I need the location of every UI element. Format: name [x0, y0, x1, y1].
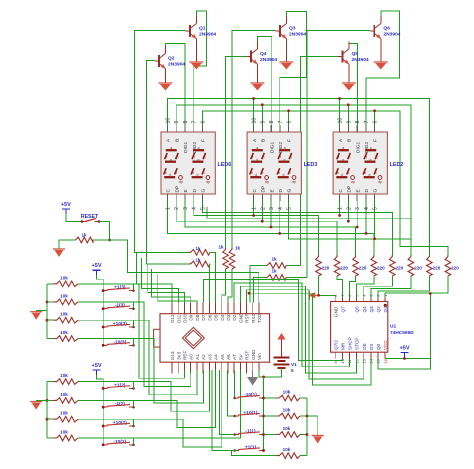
svg-text:c: c — [375, 171, 377, 175]
resistor R24 220 — [371, 255, 377, 276]
7-segment display LED2 — [333, 132, 387, 194]
svg-text:8: 8 — [183, 121, 189, 124]
wire button -10(3) stub — [133, 339, 135, 346]
resistor R26 220 — [408, 255, 414, 276]
resistor R-base2 1k — [189, 261, 210, 267]
resistor 10k bank1 row 3 — [264, 434, 277, 436]
svg-text:C: C — [338, 189, 344, 193]
svg-text:MR: MR — [340, 342, 345, 350]
digit 2 of LED3 — [278, 150, 291, 177]
wire pulldown column bank1 — [306, 398, 308, 456]
wire R-base3 to MCU D4 — [222, 269, 226, 303]
svg-text:d: d — [169, 173, 171, 177]
wire R 220-1 to U1 GND with port arrow — [319, 276, 336, 302]
wire MCU D8 to left column — [158, 274, 197, 303]
svg-text:GND: GND — [238, 312, 243, 323]
wire Q1 emitter — [195, 39, 197, 63]
resistor 10k bank1 row 2 — [264, 415, 277, 417]
svg-text:G: G — [287, 189, 293, 193]
digit 1 of LED6 — [164, 150, 177, 177]
svg-text:DP: DP — [174, 186, 180, 193]
wire MCU to U1 STCP — [240, 286, 356, 373]
svg-text:4: 4 — [364, 207, 370, 210]
wire U1 DS control — [249, 293, 371, 385]
svg-text:A5: A5 — [220, 354, 225, 360]
svg-text:5: 5 — [291, 368, 294, 373]
svg-text:DIG1: DIG1 — [355, 141, 361, 153]
svg-text:D13: D13 — [170, 351, 175, 360]
wire Q3 emitter — [285, 39, 287, 63]
svg-text:D10: D10 — [183, 314, 188, 323]
svg-text:D8: D8 — [195, 314, 200, 320]
wire R-base6 to MCU TXD — [254, 278, 267, 303]
wire bank2 row 4 to MCU — [78, 370, 240, 438]
svg-text:9: 9 — [260, 121, 266, 124]
svg-text:a: a — [256, 146, 258, 150]
svg-text:Q6: Q6 — [383, 26, 390, 32]
svg-text:GND: GND — [333, 306, 338, 317]
wire MCU D11 to left column — [142, 258, 179, 303]
svg-text:-10(2): -10(2) — [113, 439, 126, 445]
wire +5V riser right of U1 — [429, 294, 431, 359]
svg-text:F: F — [201, 139, 207, 142]
svg-text:1k: 1k — [195, 258, 201, 263]
wire Q6 base to R-base6 — [286, 31, 370, 278]
ground reset — [53, 248, 65, 250]
wire Q4 base to R-base3 — [226, 57, 247, 248]
svg-text:E: E — [269, 189, 275, 192]
svg-text:F: F — [287, 139, 293, 142]
svg-text:2N3904: 2N3904 — [383, 32, 400, 38]
svg-text:220: 220 — [396, 266, 404, 271]
wire R 220-6 to U1 Q2 — [371, 276, 411, 302]
svg-text:c: c — [203, 171, 205, 175]
svg-text:a: a — [170, 146, 172, 150]
wire +1(1) jog to resistor — [232, 451, 277, 456]
wire button -1(3) stub — [133, 302, 135, 309]
resistor 10k bank 2 row 4 — [47, 437, 53, 439]
pin 1 marker U1 — [384, 304, 387, 307]
svg-text:220: 220 — [433, 266, 441, 271]
ground Q4 — [250, 82, 264, 84]
svg-text:10: 10 — [252, 118, 258, 124]
svg-text:b: b — [204, 156, 206, 160]
svg-text:f: f — [366, 156, 367, 160]
svg-text:d: d — [341, 173, 343, 177]
wire bank3 row 2 to MCU — [78, 302, 191, 387]
wire segment G bus to R5 — [202, 201, 392, 255]
wire U1 VCC to +5V — [385, 358, 430, 360]
resistor 10k bank 3 row 1 — [47, 283, 53, 285]
wire segment C bus to R4 — [168, 201, 374, 255]
svg-text:STCP: STCP — [355, 338, 360, 350]
resistor 10k bank 2 row 3 — [47, 418, 53, 420]
digit 2 of LED6 — [192, 150, 205, 177]
svg-text:g: g — [370, 158, 372, 162]
svg-text:220: 220 — [322, 266, 330, 271]
wire button +1(1) left — [212, 370, 237, 451]
svg-text:-1(3): -1(3) — [115, 303, 126, 309]
microcontroller A1 Arduino Nano — [160, 314, 270, 363]
svg-text:G: G — [373, 189, 379, 193]
wire Q5 emitter — [348, 64, 350, 83]
svg-text:a: a — [284, 146, 286, 150]
svg-text:10: 10 — [338, 118, 344, 124]
wire segment E bus to R3 — [185, 201, 356, 255]
svg-text:1k: 1k — [271, 269, 277, 274]
svg-text:10k: 10k — [283, 408, 291, 413]
svg-text:c: c — [289, 171, 291, 175]
wire Q5 collector to LED2 DIG1 — [349, 44, 358, 133]
svg-text:dp: dp — [179, 180, 183, 184]
wire segment B bus — [176, 105, 411, 255]
svg-text:b: b — [263, 156, 265, 160]
svg-text:1: 1 — [338, 207, 344, 210]
svg-text:6: 6 — [373, 121, 379, 124]
svg-text:g: g — [170, 158, 172, 162]
resistor 10k bank 2 row 1 — [47, 381, 53, 383]
svg-text:3V3: 3V3 — [176, 351, 181, 360]
svg-text:3: 3 — [183, 207, 189, 210]
wire Q4 emitter — [256, 64, 258, 83]
svg-text:220: 220 — [377, 266, 385, 271]
svg-text:10k: 10k — [283, 390, 291, 395]
resistor 10k bank 3 row 3 — [47, 319, 53, 321]
svg-text:6: 6 — [287, 121, 293, 124]
svg-text:10k: 10k — [283, 447, 291, 452]
ground Q6 — [374, 61, 388, 63]
svg-text:A6: A6 — [226, 354, 231, 360]
wire Q6 collector to LED2 DIG2 — [366, 11, 399, 132]
svg-text:-1(1): -1(1) — [245, 429, 256, 435]
wire R-base2 to MCU D6 — [208, 264, 211, 303]
svg-text:D7: D7 — [201, 314, 206, 320]
svg-text:10k: 10k — [60, 293, 68, 298]
wire R 220-7 to U1 Q1 — [378, 276, 430, 302]
wire MCU to U1 SHCP — [234, 283, 349, 367]
wire Q3 base to R-base4 — [232, 31, 276, 248]
wire segment A bus — [168, 99, 430, 256]
svg-text:1k: 1k — [195, 246, 201, 251]
svg-text:g: g — [342, 158, 344, 162]
wire Q2 emitter — [164, 69, 166, 84]
wire Q1 collector to LED6 DIG2 — [194, 11, 207, 132]
svg-text:B: B — [347, 139, 353, 142]
wire R 220-8 to U1 Q1 — [385, 276, 448, 302]
svg-text:16: 16 — [383, 358, 388, 363]
svg-text:DS: DS — [369, 344, 374, 350]
svg-text:7: 7 — [364, 121, 370, 124]
svg-text:g: g — [284, 158, 286, 162]
ground flag MCU GND gray — [252, 370, 254, 377]
svg-text:10k: 10k — [60, 373, 68, 378]
svg-text:A4: A4 — [214, 354, 219, 360]
svg-text:Q2: Q2 — [168, 56, 175, 62]
svg-text:220: 220 — [340, 266, 348, 271]
ground bank 2 — [36, 399, 47, 401]
resistor R28 220 — [445, 255, 451, 276]
svg-text:C: C — [166, 189, 172, 193]
svg-text:2N3904: 2N3904 — [199, 32, 216, 38]
wire button +1(3) stub — [133, 284, 135, 291]
resistor R-reset 1k — [75, 237, 93, 243]
svg-text:g: g — [197, 158, 199, 162]
svg-text:e: e — [192, 171, 194, 175]
svg-text:c: c — [262, 171, 264, 175]
svg-text:f: f — [252, 156, 253, 160]
7-segment display LED6 — [161, 132, 215, 194]
wire segment G23 bus — [288, 201, 411, 239]
wire bank3 row 3 to MCU — [78, 320, 197, 395]
svg-text:RST: RST — [245, 351, 250, 360]
svg-text:10k: 10k — [60, 330, 68, 335]
svg-text:a: a — [370, 146, 372, 150]
svg-text:Q3: Q3 — [289, 26, 296, 32]
svg-text:A1: A1 — [195, 354, 200, 360]
svg-text:D6: D6 — [207, 314, 212, 320]
svg-text:e: e — [364, 171, 366, 175]
wire bank2 row 2 to MCU — [78, 370, 216, 428]
wire node to R-reset — [93, 239, 110, 241]
svg-text:e: e — [251, 171, 253, 175]
wire RESET button to node — [99, 222, 110, 241]
svg-text:+1(3): +1(3) — [114, 285, 126, 291]
svg-text:A3: A3 — [207, 354, 212, 360]
svg-text:b: b — [349, 156, 351, 160]
wire bank3 row 1 to MCU — [78, 284, 185, 378]
svg-text:d: d — [369, 173, 371, 177]
svg-text:GND: GND — [251, 349, 256, 360]
wire R 220-4 to U1 Q4 — [357, 276, 374, 302]
transistor Q5 2N3904 — [342, 51, 344, 63]
svg-text:LED3: LED3 — [304, 162, 318, 168]
svg-text:2N3904: 2N3904 — [352, 57, 369, 63]
wire Q5 base to R-base5 — [286, 57, 338, 266]
resistor R-base3 1k — [223, 248, 229, 270]
wire battery rail to buttons bank1 — [263, 377, 265, 451]
svg-text:dp: dp — [351, 180, 355, 184]
resistor R22 220 — [334, 255, 340, 276]
svg-text:D4: D4 — [220, 314, 225, 320]
svg-text:b: b — [290, 156, 292, 160]
wire RESET to MCU TXD — [110, 240, 259, 303]
wire button +10(1) left — [228, 370, 235, 416]
wire Q3 collector to LED3 DIG2 — [280, 11, 307, 132]
svg-text:Q3: Q3 — [369, 306, 374, 313]
svg-text:-10(1): -10(1) — [244, 392, 257, 398]
resistor R23 220 — [353, 255, 359, 276]
wire segment D bus to R1 — [194, 201, 319, 255]
svg-text:b: b — [176, 156, 178, 160]
ground bank1 — [307, 416, 318, 436]
svg-text:TXD: TXD — [257, 313, 262, 323]
svg-text:5V: 5V — [238, 353, 243, 360]
svg-text:2: 2 — [260, 207, 266, 210]
wire battery to Vin — [259, 368, 282, 377]
resistor R-base6 1k — [266, 275, 286, 281]
svg-text:DIG1: DIG1 — [183, 141, 189, 153]
svg-text:3: 3 — [355, 207, 361, 210]
svg-text:4: 4 — [192, 207, 198, 210]
svg-text:c: c — [348, 171, 350, 175]
ground bank 3 — [36, 310, 47, 312]
shift register U1 74HC595D — [331, 302, 388, 353]
svg-text:Q4: Q4 — [260, 51, 267, 57]
svg-text:G: G — [201, 189, 207, 193]
svg-text:F: F — [373, 139, 379, 142]
svg-text:+10(2): +10(2) — [113, 420, 127, 426]
svg-text:8: 8 — [355, 121, 361, 124]
svg-text:5: 5 — [200, 207, 206, 210]
svg-text:b: b — [376, 156, 378, 160]
svg-text:Q1: Q1 — [383, 306, 388, 313]
svg-text:D12: D12 — [170, 314, 175, 323]
svg-text:1: 1 — [166, 207, 172, 210]
wire MCU D12 to left column — [137, 252, 173, 302]
svg-text:220: 220 — [414, 266, 422, 271]
svg-text:d: d — [196, 173, 198, 177]
wire segment spare bus — [207, 207, 410, 218]
wire button -1(1) left — [220, 370, 235, 435]
svg-text:E: E — [355, 189, 361, 192]
wire pulldown column bank 2 — [46, 382, 48, 438]
wire button -10(1) left — [234, 370, 236, 398]
svg-text:D5: D5 — [214, 314, 219, 320]
svg-text:+5V: +5V — [92, 363, 102, 369]
svg-text:e: e — [165, 171, 167, 175]
svg-text:Q7: Q7 — [340, 306, 345, 313]
svg-text:10k: 10k — [60, 275, 68, 280]
wire R 220-2 to U1 Q6 — [337, 276, 342, 302]
svg-text:10k: 10k — [60, 312, 68, 317]
svg-text:dp: dp — [378, 180, 382, 184]
transistor Q1 2N3904 — [189, 25, 191, 37]
battery V1 5V — [277, 333, 285, 340]
svg-text:dp: dp — [206, 180, 210, 184]
svg-text:a: a — [342, 146, 344, 150]
svg-text:e: e — [278, 171, 280, 175]
svg-text:g: g — [256, 158, 258, 162]
svg-text:f: f — [338, 156, 339, 160]
svg-text:5: 5 — [287, 207, 293, 210]
svg-text:V1: V1 — [291, 362, 297, 367]
svg-text:2N3904: 2N3904 — [289, 32, 306, 38]
7-segment display LED3 — [247, 132, 301, 194]
svg-text:B: B — [261, 139, 267, 142]
svg-text:Q0: Q0 — [376, 343, 381, 350]
svg-text:2: 2 — [174, 207, 180, 210]
svg-text:2N3904: 2N3904 — [168, 62, 185, 68]
svg-text:DIG1: DIG1 — [269, 141, 275, 153]
svg-text:Q2: Q2 — [376, 306, 381, 313]
svg-text:DP: DP — [347, 186, 353, 193]
wire U1 Q0 loop — [378, 359, 430, 370]
resistor 10k bank 3 row 2 — [47, 301, 53, 303]
svg-text:2N3904: 2N3904 — [260, 57, 277, 63]
svg-text:10: 10 — [166, 118, 172, 124]
wire MCU to U1 OE — [247, 290, 364, 379]
svg-text:c: c — [176, 171, 178, 175]
wire button +10(3) stub — [133, 320, 135, 327]
resistor R25 220 — [390, 255, 396, 276]
resistor 10k bank 3 row 4 — [47, 338, 53, 340]
svg-text:7: 7 — [192, 121, 198, 124]
svg-text:+5V: +5V — [61, 202, 71, 208]
svg-text:D11: D11 — [176, 314, 181, 323]
svg-text:f: f — [194, 156, 195, 160]
svg-text:9: 9 — [174, 121, 180, 124]
svg-text:Q5: Q5 — [355, 306, 360, 313]
wire bank2 row 1 to MCU — [78, 370, 209, 411]
wire button +1(2) stub — [133, 382, 135, 389]
svg-text:+5V: +5V — [92, 263, 102, 269]
svg-text:E: E — [183, 189, 189, 192]
svg-text:Q4: Q4 — [362, 306, 367, 313]
resistor 10k bank1 row 4 — [277, 453, 301, 459]
wire button -1(2) stub — [133, 400, 135, 407]
digit 2 of LED2 — [364, 150, 377, 177]
svg-text:OE: OE — [362, 343, 367, 350]
svg-text:1: 1 — [252, 207, 258, 210]
resistor 10k bank1 row 1 — [264, 397, 277, 399]
wire R-base1 to MCU D5 — [210, 252, 216, 302]
resistor R27 220 — [427, 255, 433, 276]
svg-text:3: 3 — [269, 207, 275, 210]
svg-text:RST: RST — [245, 314, 250, 323]
ground Q2 — [158, 82, 172, 84]
transistor Q2 2N3904 — [158, 55, 160, 67]
svg-text:a: a — [198, 146, 200, 150]
svg-text:U1: U1 — [390, 324, 396, 330]
ground Q5 — [342, 82, 356, 84]
svg-text:Q7/2: Q7/2 — [333, 340, 338, 350]
ground Q1 — [189, 61, 203, 63]
svg-text:VCC: VCC — [383, 340, 388, 350]
svg-text:e: e — [337, 171, 339, 175]
wire pulldown column bank 3 — [46, 284, 48, 339]
svg-text:D2: D2 — [232, 314, 237, 320]
digit 1 of LED3 — [250, 150, 262, 177]
svg-text:D: D — [278, 189, 284, 193]
wire bank2 row 3 to MCU — [78, 370, 222, 447]
svg-text:1k: 1k — [218, 245, 224, 250]
wire Q1 base to R-base1 — [135, 31, 190, 253]
svg-text:10k: 10k — [60, 392, 68, 397]
wire +5V rail bank 3 — [97, 275, 104, 345]
wire +5V to RESET button — [66, 214, 82, 222]
svg-text:220: 220 — [451, 266, 459, 271]
wire segment DP bus to R2 — [176, 201, 337, 255]
svg-text:2: 2 — [346, 207, 352, 210]
svg-text:1k: 1k — [271, 257, 277, 262]
svg-text:+1(1): +1(1) — [245, 445, 257, 451]
svg-text:REF: REF — [183, 351, 188, 360]
svg-text:74HC595D: 74HC595D — [390, 330, 414, 336]
wire R-base5 to MCU RXD — [250, 266, 266, 303]
wire R 220-3 to U1 Q5 — [349, 276, 355, 302]
wire bank3 row 4 to MCU — [78, 339, 203, 404]
transistor Q6 2N3904 — [373, 25, 375, 37]
svg-text:6: 6 — [200, 121, 206, 124]
svg-text:D: D — [364, 189, 370, 193]
svg-text:RESET: RESET — [81, 214, 99, 220]
svg-text:dp: dp — [265, 180, 269, 184]
svg-text:Q5: Q5 — [352, 51, 359, 57]
wire MCU D10 to left column — [148, 264, 185, 303]
wire Q2 collector to LED6 DIG1 — [165, 44, 185, 133]
svg-text:+5V: +5V — [399, 345, 409, 351]
svg-text:9: 9 — [346, 121, 352, 124]
